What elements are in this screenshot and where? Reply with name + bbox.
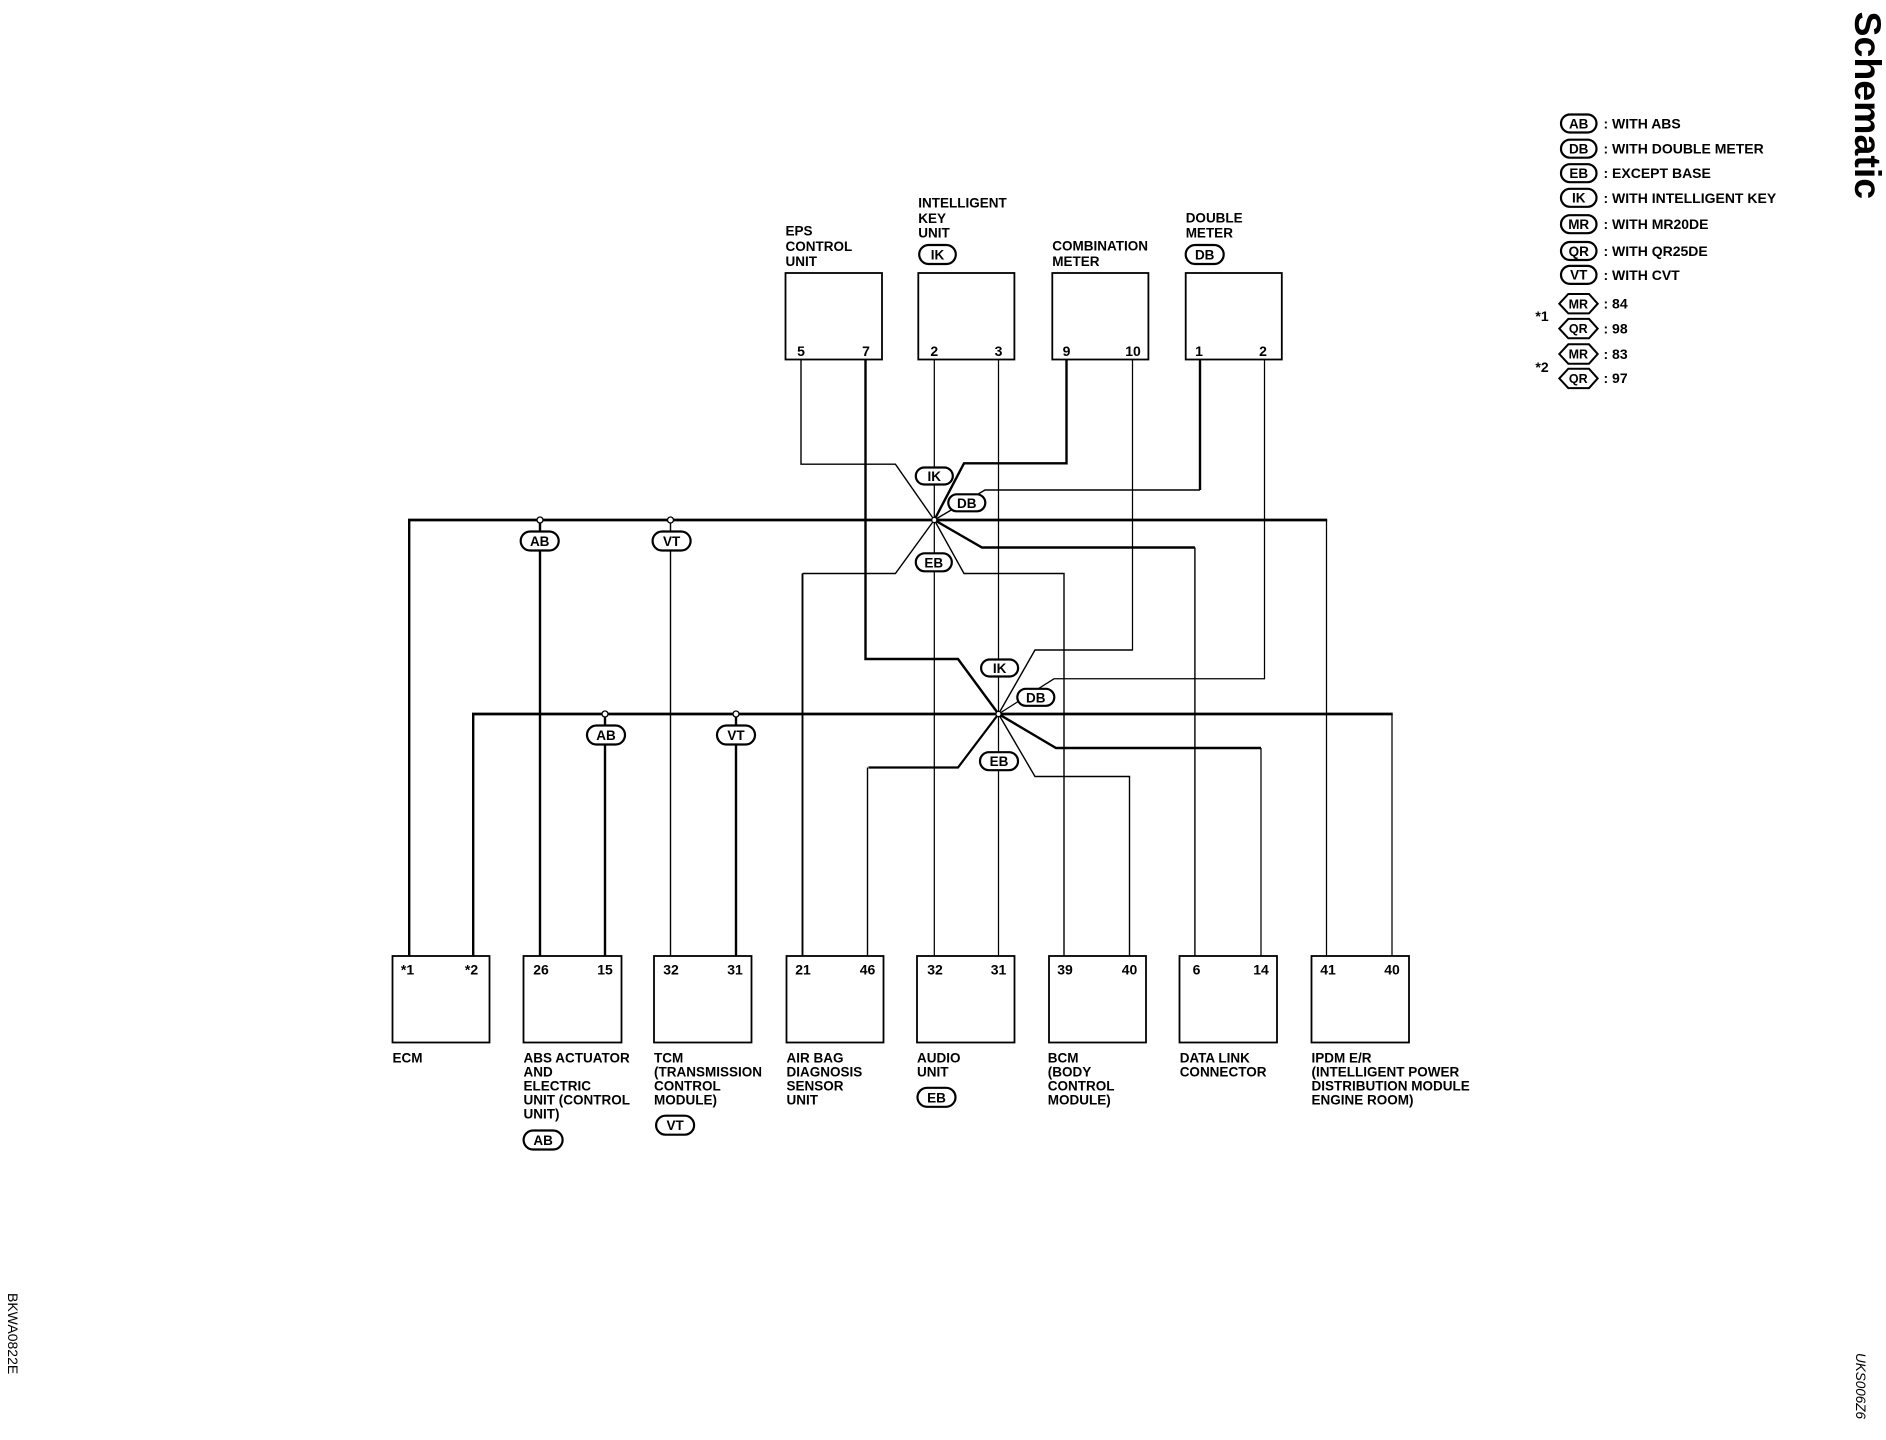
svg-text:41: 41 bbox=[1320, 962, 1336, 978]
svg-text:SENSOR: SENSOR bbox=[787, 1079, 844, 1094]
svg-text:METER: METER bbox=[1186, 225, 1234, 240]
svg-text:UNIT): UNIT) bbox=[524, 1107, 560, 1122]
svg-text:: WITH ABS: : WITH ABS bbox=[1604, 116, 1681, 132]
svg-text:21: 21 bbox=[795, 962, 811, 978]
svg-text:40: 40 bbox=[1122, 962, 1138, 978]
svg-text:MR: MR bbox=[1568, 217, 1589, 232]
svg-text:6: 6 bbox=[1193, 962, 1201, 978]
svg-text:2: 2 bbox=[930, 343, 938, 359]
svg-text:ABS ACTUATOR: ABS ACTUATOR bbox=[524, 1051, 630, 1066]
svg-text:AB: AB bbox=[596, 728, 616, 743]
svg-text:DB: DB bbox=[957, 496, 977, 511]
svg-text:UNIT: UNIT bbox=[917, 1065, 949, 1080]
svg-text:IK: IK bbox=[931, 248, 945, 263]
svg-text:DB: DB bbox=[1195, 248, 1215, 263]
svg-text:32: 32 bbox=[927, 962, 943, 978]
svg-text:QR: QR bbox=[1569, 372, 1588, 386]
svg-text:46: 46 bbox=[860, 962, 876, 978]
svg-text:DIAGNOSIS: DIAGNOSIS bbox=[787, 1065, 863, 1080]
svg-text:*1: *1 bbox=[401, 962, 414, 978]
svg-text:2: 2 bbox=[1259, 343, 1267, 359]
svg-text:: WITH MR20DE: : WITH MR20DE bbox=[1604, 216, 1709, 232]
svg-text:IK: IK bbox=[928, 469, 942, 484]
svg-text:*2: *2 bbox=[1535, 359, 1548, 375]
svg-text:DOUBLE: DOUBLE bbox=[1186, 210, 1243, 225]
svg-text:39: 39 bbox=[1057, 962, 1073, 978]
svg-text:31: 31 bbox=[727, 962, 743, 978]
svg-text:ELECTRIC: ELECTRIC bbox=[524, 1079, 592, 1094]
svg-text:AND: AND bbox=[524, 1065, 553, 1080]
svg-text:IPDM E/R: IPDM E/R bbox=[1312, 1051, 1372, 1066]
svg-text:10: 10 bbox=[1125, 343, 1141, 359]
svg-text:EB: EB bbox=[924, 555, 943, 570]
svg-text:15: 15 bbox=[597, 962, 613, 978]
svg-text:: WITH DOUBLE METER: : WITH DOUBLE METER bbox=[1604, 141, 1764, 157]
svg-text:UNIT: UNIT bbox=[918, 225, 950, 240]
svg-text:METER: METER bbox=[1052, 254, 1100, 269]
svg-text:CONTROL: CONTROL bbox=[786, 239, 853, 254]
svg-text:32: 32 bbox=[663, 962, 679, 978]
svg-text:EB: EB bbox=[927, 1090, 946, 1105]
svg-text:(TRANSMISSION: (TRANSMISSION bbox=[654, 1065, 762, 1080]
svg-text:VT: VT bbox=[1570, 268, 1588, 283]
svg-text:CONTROL: CONTROL bbox=[654, 1079, 721, 1094]
svg-text:DATA LINK: DATA LINK bbox=[1180, 1051, 1250, 1066]
svg-text:9: 9 bbox=[1063, 343, 1071, 359]
svg-text:KEY: KEY bbox=[918, 211, 946, 226]
svg-text:*2: *2 bbox=[465, 962, 478, 978]
svg-text:AB: AB bbox=[533, 1133, 553, 1148]
svg-text:ENGINE ROOM): ENGINE ROOM) bbox=[1312, 1093, 1414, 1108]
svg-text:3: 3 bbox=[995, 343, 1003, 359]
svg-text:7: 7 bbox=[862, 343, 870, 359]
svg-text:14: 14 bbox=[1253, 962, 1269, 978]
svg-text:MR: MR bbox=[1569, 297, 1588, 311]
svg-text:VT: VT bbox=[666, 1118, 684, 1133]
svg-text:: EXCEPT BASE: : EXCEPT BASE bbox=[1604, 165, 1711, 181]
svg-text:: 84: : 84 bbox=[1604, 296, 1628, 312]
svg-text:Schematic: Schematic bbox=[1847, 12, 1886, 200]
svg-text:QR: QR bbox=[1569, 322, 1588, 336]
svg-text:BCM: BCM bbox=[1048, 1051, 1079, 1066]
svg-text:AIR BAG: AIR BAG bbox=[787, 1051, 844, 1066]
svg-text:AB: AB bbox=[1569, 116, 1589, 131]
svg-text:QR: QR bbox=[1569, 244, 1590, 259]
svg-text:COMBINATION: COMBINATION bbox=[1052, 239, 1148, 254]
svg-text:CONNECTOR: CONNECTOR bbox=[1180, 1065, 1267, 1080]
svg-text:DB: DB bbox=[1026, 690, 1046, 705]
svg-text:: 97: : 97 bbox=[1604, 370, 1628, 386]
svg-text:: WITH QR25DE: : WITH QR25DE bbox=[1604, 243, 1708, 259]
svg-text:UKS006Z6: UKS006Z6 bbox=[1853, 1353, 1868, 1420]
svg-text:IK: IK bbox=[1572, 191, 1586, 206]
svg-text:VT: VT bbox=[663, 534, 681, 549]
svg-text:TCM: TCM bbox=[654, 1051, 683, 1066]
svg-text:(INTELLIGENT POWER: (INTELLIGENT POWER bbox=[1312, 1065, 1460, 1080]
svg-text:EB: EB bbox=[990, 754, 1009, 769]
svg-text:IK: IK bbox=[993, 661, 1007, 676]
svg-text:EB: EB bbox=[1569, 166, 1588, 181]
svg-text:MR: MR bbox=[1569, 348, 1588, 362]
svg-text:: WITH CVT: : WITH CVT bbox=[1604, 267, 1681, 283]
svg-text:26: 26 bbox=[533, 962, 549, 978]
svg-text:: 83: : 83 bbox=[1604, 346, 1628, 362]
svg-text:INTELLIGENT: INTELLIGENT bbox=[918, 196, 1007, 211]
svg-text:40: 40 bbox=[1384, 962, 1400, 978]
svg-text:: 98: : 98 bbox=[1604, 320, 1628, 336]
svg-text:UNIT (CONTROL: UNIT (CONTROL bbox=[524, 1093, 630, 1108]
svg-text:MODULE): MODULE) bbox=[1048, 1093, 1111, 1108]
svg-text:UNIT: UNIT bbox=[786, 254, 818, 269]
svg-text:DISTRIBUTION MODULE: DISTRIBUTION MODULE bbox=[1312, 1079, 1470, 1094]
svg-text:AB: AB bbox=[530, 534, 550, 549]
svg-text:31: 31 bbox=[991, 962, 1007, 978]
svg-text:ECM: ECM bbox=[393, 1051, 423, 1066]
svg-text:: WITH INTELLIGENT KEY: : WITH INTELLIGENT KEY bbox=[1604, 190, 1777, 206]
svg-text:BKWA0822E: BKWA0822E bbox=[5, 1293, 21, 1374]
svg-text:MODULE): MODULE) bbox=[654, 1093, 717, 1108]
svg-text:DB: DB bbox=[1569, 142, 1589, 157]
svg-text:1: 1 bbox=[1195, 343, 1203, 359]
svg-text:UNIT: UNIT bbox=[787, 1093, 819, 1108]
svg-text:EPS: EPS bbox=[786, 224, 813, 239]
svg-text:*1: *1 bbox=[1535, 308, 1548, 324]
svg-text:VT: VT bbox=[727, 728, 745, 743]
svg-text:AUDIO: AUDIO bbox=[917, 1051, 961, 1066]
svg-text:CONTROL: CONTROL bbox=[1048, 1079, 1115, 1094]
svg-text:5: 5 bbox=[797, 343, 805, 359]
svg-text:(BODY: (BODY bbox=[1048, 1065, 1092, 1080]
